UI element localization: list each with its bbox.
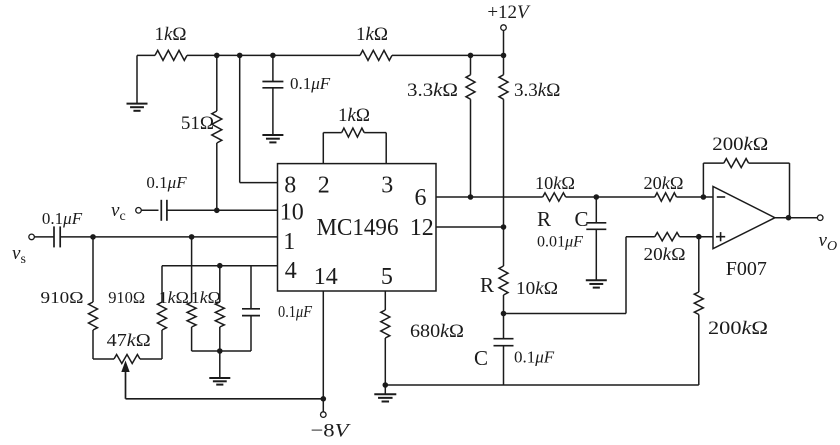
wire vc cap to pin 10 xyxy=(167,209,278,211)
svg-text:R: R xyxy=(537,207,551,231)
svg-text:MC1496: MC1496 xyxy=(317,215,399,241)
node rail-3k3a xyxy=(468,53,474,59)
label 0.1μF top xyxy=(290,74,331,93)
svg-text:10kΩ: 10kΩ xyxy=(516,278,558,298)
pin 10 label xyxy=(280,200,304,226)
svg-text:0.1μF: 0.1μF xyxy=(278,302,313,321)
capacitor 0.1μF top xyxy=(262,55,283,134)
resistor 3.3kΩ right xyxy=(499,55,508,227)
minus sign xyxy=(717,196,725,198)
wire output xyxy=(775,217,818,219)
resistor R 10kΩ vert xyxy=(499,227,508,314)
wire feedback xyxy=(703,163,789,218)
node minus input xyxy=(701,194,707,200)
wire wiper to -8V xyxy=(126,398,324,400)
wire vs cap to pin 1 xyxy=(60,236,277,238)
node vc-51 xyxy=(214,208,220,214)
label 3.3kΩ left xyxy=(407,80,458,101)
terminal -8V xyxy=(321,412,327,418)
wire pin 6 xyxy=(436,196,713,198)
capacitor C 0.1μF xyxy=(494,314,514,386)
pin 5 label xyxy=(381,264,393,290)
pin 1 label xyxy=(283,229,295,255)
potentiometer 47kΩ xyxy=(93,355,162,364)
node vs-910 xyxy=(90,234,96,240)
resistor 51Ω xyxy=(212,55,222,210)
resistor 1kΩ pins2-3 xyxy=(323,128,386,164)
node 680k-gnd xyxy=(383,382,389,388)
svg-text:2: 2 xyxy=(318,173,330,199)
label 0.1μF vs xyxy=(42,209,83,228)
label 1kΩ middle xyxy=(356,24,388,45)
ground G2 xyxy=(262,135,283,142)
svg-text:1kΩ: 1kΩ xyxy=(338,105,370,126)
wire pin 4 xyxy=(162,265,278,267)
node rail-51 xyxy=(214,53,220,59)
wire vc to cap xyxy=(141,209,158,211)
label 51Ω xyxy=(181,113,214,134)
terminal +12V xyxy=(501,25,507,31)
wire left drop to ground xyxy=(136,55,138,103)
resistor 20kΩ top xyxy=(655,193,677,201)
op-amp F007 xyxy=(713,187,775,249)
capacitor 0.1μF vs xyxy=(54,226,60,247)
svg-text:200kΩ: 200kΩ xyxy=(712,134,768,155)
pin 3 label xyxy=(381,173,393,199)
node -8V xyxy=(321,396,327,402)
svg-text:0.1μF: 0.1μF xyxy=(42,209,83,228)
label 1kΩ b xyxy=(191,288,221,307)
svg-text:910Ω: 910Ω xyxy=(41,288,84,307)
label 0.1μF bank xyxy=(278,302,313,321)
wire ground rail xyxy=(385,315,699,386)
label F007 xyxy=(726,258,767,280)
label 20kΩ bottom xyxy=(644,244,686,264)
svg-text:6: 6 xyxy=(415,185,427,211)
plus sign xyxy=(716,232,725,241)
resistor 1kΩ middle xyxy=(360,50,392,60)
wiper arrow xyxy=(121,361,129,399)
node output xyxy=(786,215,792,221)
svg-text:0.01μF: 0.01μF xyxy=(537,234,583,251)
label 910Ω right xyxy=(108,288,145,307)
label 1kΩ a xyxy=(159,288,189,307)
svg-text:1kΩ: 1kΩ xyxy=(191,288,221,307)
ground G3 xyxy=(209,351,230,385)
label 0.1μF vert xyxy=(514,348,555,367)
svg-text:F007: F007 xyxy=(726,258,767,280)
label 10kΩ horiz xyxy=(535,173,575,193)
svg-text:−8V: −8V xyxy=(311,421,352,442)
resistor 20kΩ bottom xyxy=(655,233,680,241)
node pin6-3k3 xyxy=(468,194,474,200)
wire -8V stem xyxy=(322,399,324,412)
svg-text:12: 12 xyxy=(410,215,434,241)
resistor 10kΩ horiz xyxy=(543,193,566,201)
svg-text:8: 8 xyxy=(284,173,296,199)
svg-text:4: 4 xyxy=(285,258,297,284)
label 20kΩ top xyxy=(644,173,684,193)
pin 2 label xyxy=(318,173,330,199)
label 200kΩ vert xyxy=(708,318,768,339)
resistor 1kΩ a xyxy=(187,237,196,351)
resistor 910Ω left xyxy=(89,237,98,359)
node pin12-R xyxy=(501,224,507,230)
label C horiz xyxy=(574,207,588,231)
wire vs to cap xyxy=(34,236,54,238)
terminal vo xyxy=(817,215,823,221)
capacitor 0.1μF vc xyxy=(161,200,167,221)
label 1kΩ left xyxy=(154,24,186,45)
label 47kΩ xyxy=(107,330,151,350)
label 910Ω left xyxy=(41,288,84,307)
svg-text:0.1μF: 0.1μF xyxy=(514,348,555,367)
svg-text:10kΩ: 10kΩ xyxy=(535,173,575,193)
svg-text:3.3kΩ: 3.3kΩ xyxy=(407,80,458,101)
node pin4-1k xyxy=(217,263,223,269)
resistor 200kΩ vert xyxy=(694,237,703,315)
node bank-gnd xyxy=(217,348,223,354)
label vs xyxy=(12,243,26,267)
label 0.1μF vc xyxy=(146,173,187,192)
svg-text:47kΩ: 47kΩ xyxy=(107,330,151,350)
svg-text:5: 5 xyxy=(381,264,393,290)
wire top rail xyxy=(137,54,504,56)
svg-text:1: 1 xyxy=(283,229,295,255)
resistor 200kΩ feedback xyxy=(724,159,749,168)
svg-text:0.1μF: 0.1μF xyxy=(290,74,331,93)
resistor 680kΩ xyxy=(381,291,390,385)
capacitor bank 0.1μF xyxy=(242,266,260,351)
svg-text:3.3kΩ: 3.3kΩ xyxy=(514,80,560,101)
label vc xyxy=(111,200,126,224)
label R vert xyxy=(480,273,494,297)
terminal vc xyxy=(136,208,142,214)
node rail-pin8 xyxy=(237,53,243,59)
svg-text:R: R xyxy=(480,273,494,297)
terminal vs xyxy=(29,234,35,240)
node rail-cap xyxy=(270,53,276,59)
label MC1496 xyxy=(317,215,399,241)
label R horiz xyxy=(537,207,551,231)
pin 12 label xyxy=(410,215,434,241)
label C vert xyxy=(474,346,488,370)
label vo xyxy=(819,230,838,254)
pin 8 label xyxy=(284,173,296,199)
ground G1 xyxy=(127,104,148,111)
label 0.01μF xyxy=(537,234,583,251)
label 10kΩ vert xyxy=(516,278,558,298)
svg-text:10: 10 xyxy=(280,200,304,226)
label 200kΩ feedback xyxy=(712,134,768,155)
label +12V xyxy=(487,2,531,23)
resistor 910Ω right xyxy=(158,266,167,359)
svg-text:14: 14 xyxy=(314,264,338,290)
node vs-1k xyxy=(189,234,195,240)
wire plus input xyxy=(504,237,714,314)
wire bank bottom xyxy=(192,350,251,352)
svg-text:1kΩ: 1kΩ xyxy=(159,288,189,307)
svg-text:+12V: +12V xyxy=(487,2,531,23)
svg-text:200kΩ: 200kΩ xyxy=(708,318,768,339)
wire pin 14 xyxy=(322,291,324,399)
label 680kΩ xyxy=(410,321,464,342)
resistor 1kΩ b xyxy=(215,266,224,351)
label 3.3kΩ right xyxy=(514,80,560,101)
capacitor 0.01μF xyxy=(586,197,606,280)
svg-text:3: 3 xyxy=(381,173,393,199)
wire +12V stem xyxy=(503,30,505,55)
op-amp U1 MC1496 box xyxy=(278,164,437,291)
node plus input xyxy=(696,234,702,240)
svg-text:20kΩ: 20kΩ xyxy=(644,173,684,193)
svg-text:20kΩ: 20kΩ xyxy=(644,244,686,264)
svg-text:C: C xyxy=(474,346,488,370)
label 1kΩ pins2-3 xyxy=(338,105,370,126)
resistor 1kΩ left xyxy=(155,50,187,60)
resistor 3.3kΩ left xyxy=(466,55,475,197)
label -8V xyxy=(311,421,352,442)
node rail-3k3b xyxy=(501,53,507,59)
pin 14 label xyxy=(314,264,338,290)
svg-text:1kΩ: 1kΩ xyxy=(356,24,388,45)
svg-text:910Ω: 910Ω xyxy=(108,288,145,307)
wire pin 8 xyxy=(240,55,278,182)
svg-text:51Ω: 51Ω xyxy=(181,113,214,134)
svg-text:0.1μF: 0.1μF xyxy=(146,173,187,192)
svg-text:1kΩ: 1kΩ xyxy=(154,24,186,45)
pin 4 label xyxy=(285,258,297,284)
ground G5 xyxy=(586,280,607,287)
node R-C xyxy=(501,311,507,317)
svg-text:C: C xyxy=(574,207,588,231)
pin 6 label xyxy=(415,185,427,211)
ground G4 xyxy=(374,385,396,402)
svg-text:680kΩ: 680kΩ xyxy=(410,321,464,342)
wire pin 12 xyxy=(436,226,504,228)
node pin6-cap xyxy=(594,194,600,200)
